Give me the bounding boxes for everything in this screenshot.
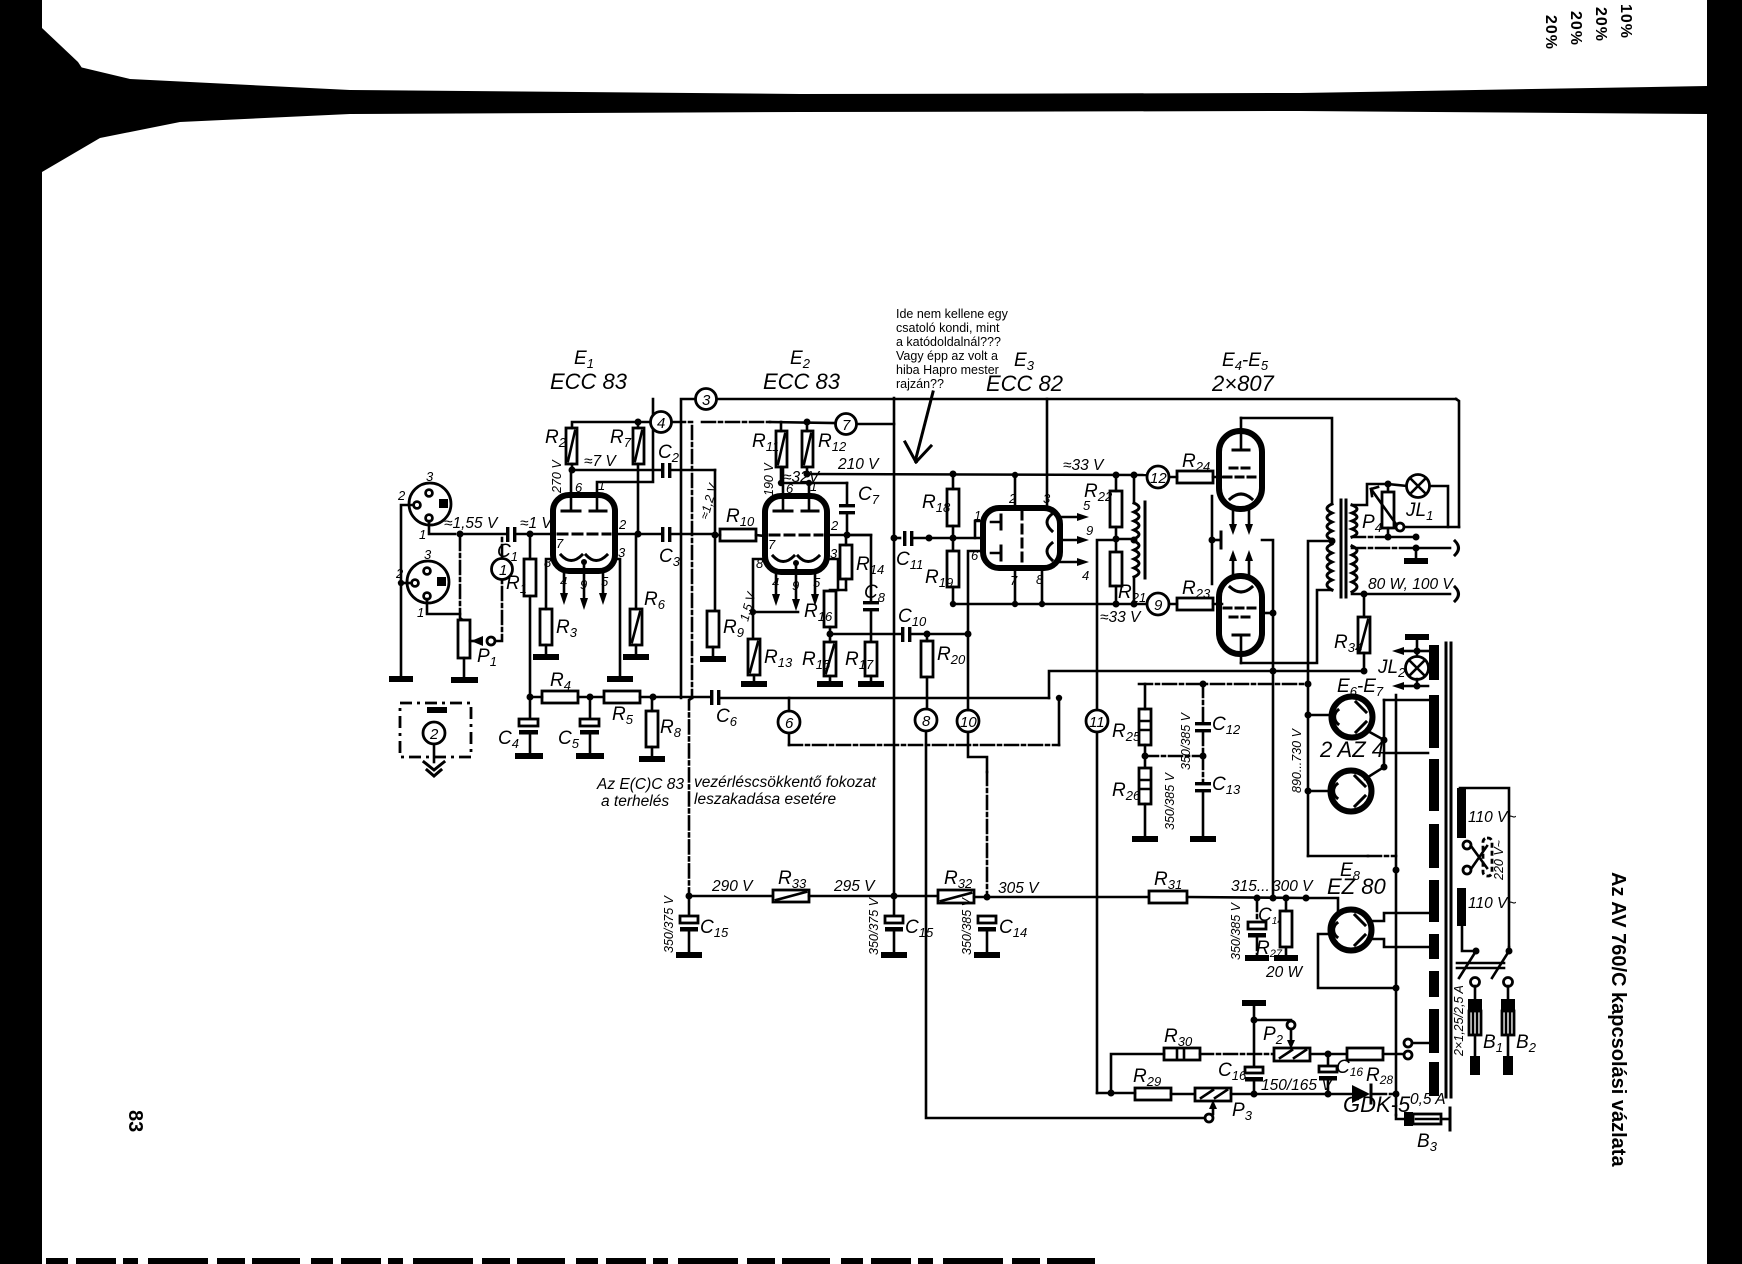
svg-text:9: 9 [1154, 597, 1163, 614]
resistor R25 [1139, 709, 1151, 745]
resistor R20 [921, 641, 933, 677]
svg-text:890...730 V: 890...730 V [1290, 727, 1304, 793]
svg-text:110 V~: 110 V~ [1468, 895, 1516, 912]
node 10 lower jog to C14 [968, 732, 987, 772]
svg-text:csatoló kondi, mint: csatoló kondi, mint [896, 321, 1000, 335]
E2 heater arrow pin 4 [775, 572, 778, 594]
junction JL2 bottom [1414, 683, 1421, 690]
JL2 top lead [1416, 640, 1419, 656]
svg-text:Ide nem kellene egy: Ide nem kellene egy [896, 307, 1009, 321]
potentiometer P2 [1274, 1048, 1310, 1061]
R12 slash [804, 434, 811, 464]
EZ80 anode wires to HV winding [1370, 913, 1428, 921]
svg-text:20%: 20% [1567, 11, 1584, 46]
driver transformer winding lower [1134, 541, 1139, 577]
wire R4 leads [530, 696, 604, 699]
capacitor C14 first electrolytic [978, 916, 996, 952]
ground bar for R27 [1274, 955, 1298, 961]
junction P4 top [1385, 481, 1392, 488]
ground for pin3 wire [607, 676, 633, 682]
resistor R4 [542, 691, 578, 703]
wire diode to vertical [1373, 1093, 1396, 1096]
diode GDK-5 [1352, 1085, 1371, 1103]
svg-text:20%: 20% [1542, 15, 1559, 50]
svg-text:110 V~: 110 V~ [1468, 809, 1516, 826]
wire R14 bottom to R16 top [830, 590, 846, 591]
svg-text:12: 12 [1150, 470, 1167, 487]
node 7 [836, 414, 857, 435]
svg-text:350/385 V: 350/385 V [1179, 711, 1193, 770]
junction P2 branch [1251, 1017, 1258, 1024]
wire node6 stub up [788, 698, 791, 711]
junction C11 right [926, 535, 933, 542]
svg-text:ECC 82: ECC 82 [986, 371, 1063, 396]
svg-text:7: 7 [842, 417, 851, 434]
svg-text:2 AZ 4: 2 AZ 4 [1319, 737, 1384, 762]
tube1 anode diagonal [1366, 730, 1384, 740]
wire node3 left and long vertical [681, 399, 695, 698]
feed dash line [1139, 683, 1308, 686]
svg-text:150/165 V: 150/165 V [1261, 1077, 1333, 1094]
wire R25 top [1144, 684, 1147, 709]
svg-text:7: 7 [768, 537, 776, 552]
svg-text:6: 6 [785, 715, 794, 732]
807 no2 cathode arc [1230, 587, 1252, 592]
capacitor C16 right [1319, 1054, 1337, 1094]
wire socket1 pin1 to node [429, 521, 455, 534]
E2 cathode junction dot [793, 560, 799, 566]
svg-text:3: 3 [426, 469, 434, 484]
P2 wiper arrow [1290, 1029, 1293, 1040]
double triode E3 envelope [983, 508, 1060, 568]
node 11 [1086, 710, 1108, 732]
resistor R28 [1347, 1048, 1383, 1060]
ground for C14 first [974, 952, 1000, 958]
wire E2 anode to C8 [847, 535, 871, 601]
DIN socket input 1 [409, 483, 451, 525]
rectifier bus junction lower [1305, 788, 1312, 795]
resistor R33 [773, 890, 809, 902]
R11 slash [778, 434, 785, 464]
main dropper vertical from node3 line [893, 398, 896, 896]
rectifier bus lower jog [1308, 855, 1368, 858]
wire R15 leads [829, 634, 832, 681]
capacitor C5 electrolytic [580, 697, 599, 753]
svg-text:≈1 V: ≈1 V [520, 515, 553, 532]
svg-text:350/375 V: 350/375 V [662, 894, 676, 953]
wire R14 leads [845, 535, 848, 590]
svg-text:rajzán??: rajzán?? [896, 377, 944, 391]
wire plug to fuse B1 [1474, 986, 1477, 999]
svg-text:190 V: 190 V [762, 462, 776, 496]
wire E2 pin3 down [827, 559, 838, 590]
junction E1 anode [569, 467, 576, 474]
resistor R10 [720, 529, 756, 541]
807 no2 bottom cap lead [1240, 635, 1243, 663]
wire R30 right to P2 [1200, 1053, 1274, 1056]
E1 heater arrow pin 9 [583, 565, 586, 598]
junction R34 top [1361, 591, 1368, 598]
resistor R26 [1139, 768, 1151, 804]
wire socket2 pin2 [401, 582, 411, 585]
coupling riser C2/C3 to R9 [714, 470, 717, 611]
ground for R3 [533, 654, 559, 660]
E3 pin8 lead [1041, 568, 1044, 604]
scan artifact: top-left corner blob [42, 28, 100, 165]
E3 pin3 lead riser to top wire [1046, 399, 1049, 508]
R33 slash [776, 892, 806, 900]
bias line 150V [1231, 1093, 1352, 1096]
ground for R26 [1132, 836, 1158, 842]
wire R26 bottom [1144, 804, 1147, 836]
resistor R21 [1110, 552, 1122, 586]
wire top rail to node 7 [702, 421, 770, 424]
wire JL1 right side down [1430, 486, 1448, 527]
R13 slash [750, 642, 758, 672]
junction cathode tap [750, 609, 756, 615]
chassis ground arrow under node2 [424, 762, 444, 776]
wire C2 right to coupling riser [671, 469, 715, 472]
svg-text:300 V: 300 V [1272, 878, 1314, 895]
wire node11 line to R29 [1097, 1092, 1135, 1095]
E1 grid dashes [558, 533, 610, 536]
svg-text:10: 10 [960, 714, 977, 731]
node 3 [696, 389, 717, 410]
scan artifact: right black border bar [1707, 0, 1742, 1264]
junction R4 left [527, 694, 534, 701]
wire E1 pin8 to R3 [546, 559, 553, 609]
annotation arrow [916, 392, 933, 458]
B+ top wire from node3 to output section [717, 398, 1456, 401]
cathode bus continues to B rail [1272, 671, 1275, 898]
junction C14 second top [1254, 895, 1261, 902]
ground for output tap [1404, 558, 1428, 564]
svg-text:leszakadása esetére: leszakadása esetére [694, 791, 837, 808]
capacitor C16 left [1245, 1067, 1263, 1094]
R12 top junction [804, 419, 811, 426]
triode E1 envelope [553, 495, 615, 571]
svg-text:≈33 V: ≈33 V [1100, 609, 1142, 626]
svg-text:10%: 10% [1617, 4, 1634, 39]
junction C12 top [1200, 681, 1207, 688]
wire to lamp JL1 [1388, 484, 1407, 486]
wire R1 leads [529, 534, 532, 694]
fuse B2 [1501, 999, 1515, 1075]
resistor R27 [1280, 911, 1292, 947]
wire R2 bottom to anode junction [571, 464, 574, 470]
B+ feed wire to heater line [1049, 671, 1363, 698]
svg-text:Az AV 760/C kapcsolási vázlata: Az AV 760/C kapcsolási vázlata [1607, 872, 1629, 1167]
svg-text:4: 4 [560, 574, 567, 589]
ground for C15 second [881, 952, 907, 958]
svg-text:Az E(C)C 83: Az E(C)C 83 [596, 776, 684, 793]
rectifier bus junction upper [1305, 712, 1312, 719]
svg-text:Vagy épp az volt a: Vagy épp az volt a [896, 349, 998, 363]
wire R20 leads [926, 634, 929, 709]
807 no2 plate bar [1233, 634, 1249, 637]
svg-text:305 V: 305 V [998, 880, 1040, 897]
svg-text:220 V~: 220 V~ [1492, 840, 1506, 881]
svg-text:9: 9 [580, 577, 587, 592]
capacitor C3 [661, 527, 671, 542]
wire R28 right to heater tap [1383, 1053, 1403, 1056]
wire R8 leads [651, 697, 654, 756]
R12 leads [806, 422, 809, 474]
junction C16 left bottom [1251, 1091, 1258, 1098]
junction C16 right top [1325, 1051, 1332, 1058]
output transformer core [1341, 500, 1346, 597]
resistor R30 [1164, 1048, 1200, 1060]
potentiometer P1 [458, 620, 495, 658]
node 8 [915, 709, 937, 731]
P2 wiper terminal [1287, 1021, 1295, 1029]
DIN socket input 2 [407, 561, 449, 603]
ground tap lead [1415, 548, 1418, 558]
svg-text:350/385 V: 350/385 V [1229, 901, 1243, 960]
wire bus to tube2 [1308, 790, 1330, 793]
node 12 [1147, 466, 1169, 488]
E2 anode plates [774, 510, 818, 513]
wire R11 bottom screen feed [781, 467, 847, 483]
E3 plate stubs [991, 522, 1001, 553]
wire E2 pin8 to R13 [753, 559, 765, 639]
junction C13 top [1200, 753, 1207, 760]
junction R5 right [650, 694, 657, 701]
resistor R23 [1177, 598, 1213, 610]
rail 295V segment [809, 895, 938, 898]
wire node7 right to main dropper column [857, 423, 894, 426]
capacitor C14 second electrolytic [1248, 898, 1266, 955]
svg-text:2: 2 [395, 566, 404, 581]
triode E2 envelope [765, 496, 827, 572]
R11 top lead [780, 422, 783, 431]
E3 pin6 stub [968, 551, 983, 634]
output transformer secondary lower [1352, 546, 1357, 592]
wire socket2 pin1 to node [427, 599, 460, 614]
centre tap feed from rectifier bus [1308, 541, 1332, 856]
voltage selector plug [1463, 838, 1492, 876]
svg-text:2: 2 [429, 726, 439, 743]
mains switch blades [1473, 948, 1480, 955]
wire P1 bottom to ground [463, 658, 466, 677]
ground for R17 [858, 681, 884, 687]
output terminal lower [1455, 587, 1459, 601]
resistor R9 [707, 611, 719, 647]
svg-text:≈7 V: ≈7 V [584, 453, 617, 470]
E3 heater arrow 5 [1060, 516, 1077, 519]
P4 bottom junction [1385, 534, 1392, 541]
svg-text:7: 7 [556, 536, 564, 551]
junction transformer top [1131, 472, 1138, 479]
junction R11 bottom [778, 480, 784, 486]
capacitor C8 [863, 601, 879, 611]
node 11 riser to centre tap [1097, 540, 1113, 710]
output tube 807 no1 [1219, 431, 1262, 509]
P3 wiper terminal [1205, 1114, 1213, 1122]
node 4 [651, 412, 672, 433]
svg-text:9: 9 [792, 578, 799, 593]
E3 center dashed divider [1021, 511, 1024, 565]
junction R27 top [1283, 895, 1290, 902]
svg-text:≈33 V: ≈33 V [1063, 457, 1105, 474]
junction rail left [686, 893, 693, 900]
wire anode junction to C2 [572, 469, 661, 472]
node 9 [1147, 593, 1169, 615]
svg-text:2×807: 2×807 [1211, 371, 1275, 396]
wire R22 leads [1115, 475, 1118, 552]
wire node9 to R23 to grid [1169, 603, 1222, 606]
svg-text:5: 5 [601, 574, 609, 589]
svg-text:hiba Hapro mester: hiba Hapro mester [896, 363, 999, 377]
resistor R2 [566, 428, 577, 464]
wire R25 bottom [1144, 745, 1147, 768]
svg-text:≈1,55 V: ≈1,55 V [444, 515, 499, 532]
wire P1 wiper to node 1 [495, 577, 502, 641]
wire E1 pin3 down [615, 559, 620, 676]
E3 pin1 stub [975, 521, 983, 538]
svg-text:11: 11 [1089, 714, 1105, 731]
junction R18/R19 grid [950, 535, 957, 542]
capacitor C7 [839, 483, 855, 535]
arrow into JL2 top wire [1404, 650, 1417, 653]
output transformer secondary upper [1352, 505, 1357, 537]
ground for P1 [451, 677, 478, 683]
capacitor C11 [903, 531, 913, 546]
wire C6 right toward node 6 and beyond [720, 697, 1049, 700]
wire R30 left [1111, 1054, 1164, 1093]
anode no1 top wire to output transformer [1241, 418, 1332, 504]
mid link R25 C13 [1145, 755, 1203, 758]
wire dropper to C11 [894, 537, 900, 540]
driver transformer core [1144, 502, 1147, 578]
capacitor C10 [901, 627, 911, 642]
svg-text:295 V: 295 V [833, 878, 876, 895]
potentiometer P3 [1195, 1088, 1231, 1101]
svg-text:2×1,25/2,5 A: 2×1,25/2,5 A [1452, 985, 1466, 1057]
R7 top junction [635, 419, 642, 426]
bias wire C10 line [830, 633, 900, 636]
807 no2 grid dashes [1224, 608, 1258, 617]
junction winding centre [1131, 537, 1138, 544]
wire R34 leads [1363, 594, 1366, 671]
E3 heater arrow 4 [1060, 561, 1077, 564]
screen junction dot [1209, 537, 1216, 544]
wire R3 bottom [545, 645, 548, 655]
junction R18 top on rail [950, 471, 957, 478]
capacitor C4 electrolytic [519, 697, 538, 753]
svg-text:3: 3 [702, 392, 711, 409]
svg-text:315...: 315... [1231, 878, 1270, 895]
wire E1 pin2 to C3 [615, 533, 661, 536]
wire R6 top to grid junction [635, 534, 638, 609]
junction R10 left [712, 532, 719, 539]
wire node 1 to input line [501, 536, 504, 558]
svg-text:4: 4 [1082, 568, 1089, 583]
resistor R29 [1135, 1088, 1171, 1100]
tube2 anode diagonal [1365, 767, 1384, 779]
ground for C5 [576, 753, 604, 759]
wire R9 bottom [712, 647, 715, 656]
scan artifact: left black border bar [0, 0, 42, 1264]
centre tap wire [1116, 538, 1134, 541]
E1 cathode arcs [561, 555, 607, 561]
svg-text:1: 1 [417, 605, 424, 620]
junction rectifier bus at rail [1270, 895, 1277, 902]
svg-text:210 V: 210 V [837, 456, 880, 473]
B+ top wire drop at right [1456, 399, 1459, 527]
scan artifact: bottom edge dashes [46, 1258, 1105, 1264]
ground for C15 first [676, 952, 702, 958]
junction R22/R21 centre tap [1113, 536, 1120, 543]
wire R10 leads [715, 535, 765, 536]
wire R2 top to node4 rail [572, 422, 650, 428]
capacitor C12 [1195, 684, 1211, 732]
wire node12 to R24 to grid [1169, 476, 1222, 479]
resistor R1 [524, 559, 536, 596]
dashed utility box with node 2 [400, 703, 471, 757]
ground for input sockets [389, 676, 413, 682]
junction R12 bottom on 210V rail [804, 471, 811, 478]
E2 anode wire pin2 [827, 534, 871, 537]
wire C11 to grid junction [913, 537, 983, 540]
E1 heater arrow pin 5 [602, 571, 605, 593]
resistor R6 [630, 609, 642, 645]
scan artifact: top black band [42, 58, 1707, 172]
ground above JL2 [1405, 634, 1429, 640]
lamp JL2 [1406, 657, 1429, 680]
wire tap to transformer [1412, 1042, 1429, 1045]
resistor R15 [824, 642, 836, 676]
resistor R22 [1110, 491, 1122, 527]
resistor R18 [947, 489, 959, 526]
svg-text:ECC 83: ECC 83 [550, 369, 628, 394]
E2 heater arrow pin 5 [814, 572, 817, 594]
transformer core lines [1446, 643, 1451, 1097]
plug terminals [1471, 978, 1480, 987]
resistor R14 [840, 545, 852, 579]
svg-text:20 W: 20 W [1265, 964, 1304, 981]
E2 pin 1 lead riser [808, 483, 811, 510]
svg-text:2: 2 [830, 518, 839, 533]
ground for C4 [515, 753, 543, 759]
junction R29 left [1108, 1090, 1115, 1097]
svg-text:GDK-5: GDK-5 [1343, 1092, 1411, 1117]
wiper wire to B+ drop [1404, 526, 1459, 529]
E2 cathode arcs [773, 556, 819, 562]
resistor R7 [633, 428, 644, 464]
lamp JL1 [1407, 475, 1430, 498]
svg-text:350/385 V: 350/385 V [960, 896, 974, 955]
wire R29 to P3 [1171, 1093, 1195, 1096]
wire R27 leads [1285, 898, 1288, 955]
output transformer primary winding [1327, 504, 1332, 590]
svg-text:4: 4 [657, 415, 665, 432]
node 1 [492, 559, 513, 580]
R34 slash [1360, 620, 1368, 650]
E1 pin 6 lead [570, 473, 573, 510]
capacitor C2 [661, 463, 671, 478]
ground for R6 [623, 654, 649, 660]
heater tap terminals [1404, 1039, 1412, 1047]
svg-text:350/385 V: 350/385 V [1163, 771, 1177, 830]
svg-text:6: 6 [575, 480, 583, 495]
P4 wiper terminal [1396, 523, 1404, 531]
svg-text:80 W, 100 V: 80 W, 100 V [1368, 576, 1454, 593]
junction diode line [1393, 1091, 1400, 1098]
capacitor C15 second electrolytic [885, 896, 903, 952]
node 2 [423, 722, 445, 744]
transformer primary winding bars [1457, 788, 1466, 926]
